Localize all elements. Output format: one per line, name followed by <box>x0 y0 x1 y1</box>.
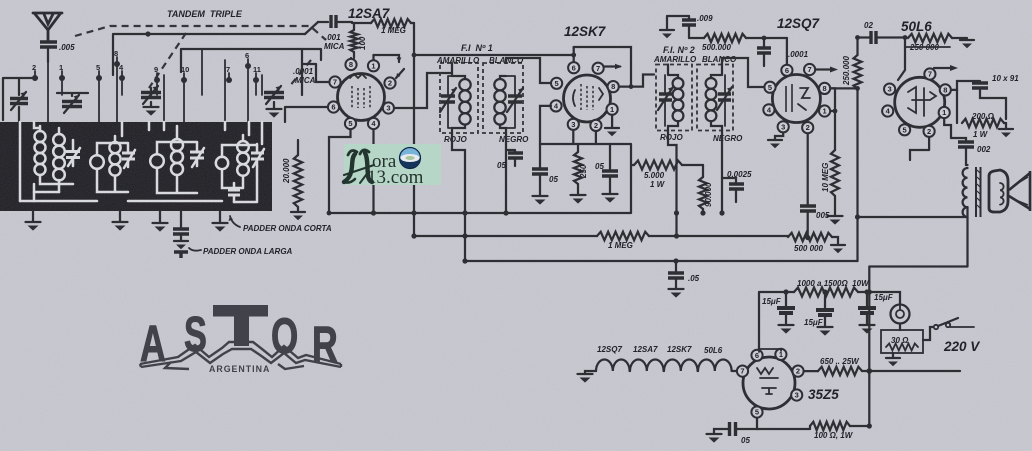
svg-text:05: 05 <box>595 162 604 171</box>
white bottom rails <box>20 166 257 202</box>
svg-text:ROJO: ROJO <box>660 133 683 142</box>
resistor 500000 volume <box>788 233 832 241</box>
white wires g2 <box>97 122 128 192</box>
ground .009 <box>660 29 674 31</box>
svg-text:500 000: 500 000 <box>794 244 823 253</box>
svg-text:30 Ω: 30 Ω <box>891 336 909 345</box>
capacitor .0001 <box>757 48 771 53</box>
wire plate riser to pins <box>759 349 781 352</box>
wire osc link <box>305 22 318 34</box>
svg-text:1 W: 1 W <box>973 130 989 139</box>
pin 3 <box>791 389 802 400</box>
bus AVC with 1 MEG <box>414 235 597 237</box>
ground box 1 <box>32 211 34 221</box>
capacitor 05 fi1 <box>506 150 515 152</box>
resistor 200 ohm <box>962 119 1004 127</box>
pin 1 <box>775 349 786 360</box>
pin 5 <box>345 118 356 129</box>
tube 50L6 <box>895 77 945 127</box>
svg-text:12SA7: 12SA7 <box>348 6 391 21</box>
capacitor .009 <box>667 16 689 29</box>
svg-text:0.0025: 0.0025 <box>727 170 752 179</box>
wire pin2 down <box>910 137 929 160</box>
wire pin7 arrow <box>604 65 620 67</box>
svg-text:5.000: 5.000 <box>644 171 665 180</box>
wire pin3 down <box>572 130 574 144</box>
svg-text:15μF: 15μF <box>804 318 824 327</box>
svg-text:1000 a 1500Ω 10W: 1000 a 1500Ω 10W <box>797 279 870 288</box>
capacitor 0.0025 <box>722 178 736 183</box>
dashed link to tuning cap 1 <box>149 33 186 88</box>
FI2 secondary trimmer <box>718 94 731 100</box>
wire FI1 sec top to 12SK7 <box>506 58 551 83</box>
svg-text:12SK7: 12SK7 <box>667 345 692 354</box>
pin 2 <box>384 77 395 88</box>
svg-text:3: 3 <box>386 104 390 113</box>
bus B minus <box>465 260 858 262</box>
svg-text:220 V: 220 V <box>943 339 980 354</box>
svg-text:5: 5 <box>755 408 759 417</box>
speaker cone <box>1009 171 1030 211</box>
wire pin5 down <box>736 418 757 429</box>
svg-text:11: 11 <box>253 65 261 74</box>
cap white 2 <box>122 153 135 159</box>
wire pin5 down <box>329 130 351 214</box>
pin 6 <box>573 47 575 62</box>
svg-text:05: 05 <box>497 161 506 170</box>
wire FI2 rojo to AVC <box>668 131 677 237</box>
pin 7 <box>329 76 340 87</box>
svg-text:90.000: 90.000 <box>704 182 713 207</box>
svg-text:NEGRO: NEGRO <box>713 134 743 143</box>
wire pin1 hook <box>374 55 400 62</box>
FI1 primary coil <box>452 63 465 79</box>
svg-text:12SQ7: 12SQ7 <box>777 16 821 31</box>
svg-text:6: 6 <box>331 103 335 112</box>
pin 4 <box>882 105 893 116</box>
watermark Hora13.com <box>344 144 441 185</box>
ground box 3 <box>159 211 161 222</box>
tube 12SQ7 <box>772 75 820 123</box>
resistor 5.000 1W <box>610 144 634 165</box>
ground volume <box>831 244 845 246</box>
svg-text:5: 5 <box>348 119 352 128</box>
white wires g1 <box>20 122 73 201</box>
coil loop g2 <box>90 155 104 169</box>
white wires g3 <box>149 122 197 193</box>
ASTOR lightning bolt <box>140 342 341 369</box>
pin 1 <box>607 104 618 115</box>
pin 2 <box>924 126 935 137</box>
wire pin8 pin1 node <box>831 88 835 150</box>
pin 5 <box>764 82 775 93</box>
svg-text:7: 7 <box>928 70 932 79</box>
svg-text:2: 2 <box>796 367 800 376</box>
FI1 secondary coil <box>494 79 505 90</box>
svg-text:F.I Nº 1: F.I Nº 1 <box>461 43 493 53</box>
trimmer cap left edge <box>3 78 37 122</box>
resistor 30 ohm box <box>899 324 901 331</box>
wire pin8 node <box>956 90 958 123</box>
trimmer cap 2 <box>57 93 88 96</box>
pin 2 <box>802 122 813 133</box>
svg-text:PADDER ONDA CORTA: PADDER ONDA CORTA <box>243 224 332 233</box>
svg-text:PADDER ONDA LARGA: PADDER ONDA LARGA <box>203 247 293 256</box>
coil L2 <box>109 142 120 153</box>
capacitor 10x91 <box>951 81 980 90</box>
svg-text:100 Ω, 1W: 100 Ω, 1W <box>814 431 854 440</box>
svg-text:.0001: .0001 <box>788 50 809 59</box>
wire FI1 negro down <box>505 133 507 213</box>
wire AVC to 12SK7 grid <box>414 54 574 56</box>
svg-text:200 Ω: 200 Ω <box>971 112 995 121</box>
svg-text:3: 3 <box>888 85 892 94</box>
svg-text:7: 7 <box>596 64 600 73</box>
svg-text:2: 2 <box>388 79 392 88</box>
wire pin6 left <box>285 107 328 122</box>
resistor 250.000 grid 50L6 <box>904 38 906 61</box>
svg-text:1 W: 1 W <box>650 180 666 189</box>
capacitor .05 bus <box>675 261 677 272</box>
resistor 1 MEG <box>352 22 414 24</box>
svg-text:AMARILLO: AMARILLO <box>653 55 697 64</box>
svg-text:1: 1 <box>610 105 614 114</box>
pin 8 <box>819 83 830 94</box>
svg-text:02: 02 <box>864 21 873 30</box>
wire pin7 left <box>302 49 329 95</box>
wire pin3 ground <box>775 133 783 140</box>
capacitor 05 screen <box>609 144 611 170</box>
wire top h2 <box>181 49 321 72</box>
wire pin7 arrow <box>816 68 834 70</box>
white wires g4 <box>222 122 262 188</box>
svg-text:5: 5 <box>768 83 772 92</box>
ASTOR logo letter T <box>213 305 268 346</box>
svg-text:.005: .005 <box>59 43 75 52</box>
svg-text:.009: .009 <box>697 14 713 23</box>
ground tuning 3 <box>267 108 282 110</box>
coil L4 <box>237 141 249 153</box>
svg-text:50L6: 50L6 <box>901 19 932 34</box>
capacitor 15uF 1 <box>785 292 787 307</box>
svg-text:50L6: 50L6 <box>704 346 723 355</box>
FI2 primary coil <box>673 78 684 89</box>
svg-text:2: 2 <box>594 121 598 130</box>
svg-text:05: 05 <box>549 175 558 184</box>
pin 8 <box>940 84 951 95</box>
watermark blackletter H <box>344 150 374 183</box>
wire pin8 to FI2 <box>631 75 654 87</box>
svg-text:2: 2 <box>806 123 810 132</box>
svg-text:6: 6 <box>572 63 576 72</box>
capacitor 05 output <box>730 422 736 436</box>
wire pin8 loop <box>574 47 631 87</box>
pin 8 <box>608 81 619 92</box>
svg-text:3: 3 <box>781 122 785 131</box>
tube 35Z5 <box>743 357 795 409</box>
capacitor 02 coupling <box>858 36 870 38</box>
pin 2 <box>590 120 601 131</box>
svg-text:8: 8 <box>823 84 827 93</box>
padder cap white <box>228 190 240 195</box>
svg-text:8: 8 <box>611 82 615 91</box>
svg-text:MICA: MICA <box>324 42 345 51</box>
dashed link to tuning cap 3 <box>289 60 311 87</box>
dashed tandem line <box>75 26 326 40</box>
pin 3 <box>383 102 394 113</box>
capacitor .005 <box>40 42 57 47</box>
pin 3 <box>898 60 905 80</box>
speaker <box>989 170 1008 212</box>
svg-text:7: 7 <box>740 367 744 376</box>
wire FI1 rojo down <box>452 133 465 261</box>
svg-text:F.I. Nº 2: F.I. Nº 2 <box>663 45 695 55</box>
svg-text:12SK7: 12SK7 <box>564 24 607 39</box>
capacitor 002 <box>951 138 966 141</box>
ground 05 output <box>714 429 722 433</box>
svg-text:1: 1 <box>371 61 375 70</box>
capacitor .001 MICA <box>318 21 352 23</box>
ground 10 MEG <box>828 215 843 217</box>
pin 3 <box>568 119 579 130</box>
svg-text:13.com: 13.com <box>367 167 424 188</box>
wire B plus to transformer <box>858 207 968 292</box>
svg-text:2: 2 <box>927 127 931 136</box>
pin 5 <box>751 406 762 417</box>
bus AF top <box>329 165 631 213</box>
svg-text:BLANCO: BLANCO <box>702 55 737 64</box>
svg-text:35Z5: 35Z5 <box>808 387 839 402</box>
ground 20.000 <box>297 207 299 211</box>
pin 2 <box>792 366 803 377</box>
wire pin1 ground <box>611 115 613 127</box>
svg-text:3: 3 <box>571 120 575 129</box>
wire FI2 negro down <box>721 131 723 214</box>
resistor 500.000 grid <box>689 37 704 39</box>
output transformer <box>966 164 968 166</box>
svg-text:5: 5 <box>555 79 559 88</box>
coil loop g3 <box>150 154 164 168</box>
svg-text:005: 005 <box>816 211 830 220</box>
svg-text:.05: .05 <box>688 274 700 283</box>
resistor 10 MEG <box>831 150 839 196</box>
pin 7 <box>804 64 815 75</box>
resistor 250 cathode <box>577 144 579 152</box>
wire rect plate riser <box>759 292 786 352</box>
svg-text:AMARILLO: AMARILLO <box>436 56 480 65</box>
svg-text:100: 100 <box>358 36 367 50</box>
svg-text:8: 8 <box>943 86 947 95</box>
tube 12SK7 <box>564 75 611 122</box>
resistor 100 1W <box>757 426 810 429</box>
filament chokes <box>596 360 736 371</box>
filament string ground <box>578 373 593 375</box>
resistor 250.000 vertical <box>856 38 858 56</box>
svg-text:12SA7: 12SA7 <box>633 345 658 354</box>
padder onda larga cap <box>180 211 182 228</box>
capacitor 15uF 3 <box>866 292 868 307</box>
svg-text:MICA: MICA <box>295 76 316 85</box>
coil L1b <box>53 134 65 146</box>
coil L1a <box>35 131 46 142</box>
svg-text:250: 250 <box>579 164 588 179</box>
coil L3 <box>171 139 183 151</box>
cap white 1 <box>66 152 80 158</box>
ground 250000 <box>960 39 974 41</box>
watermark globe <box>400 148 421 169</box>
svg-text:650 .. 25W: 650 .. 25W <box>820 357 860 366</box>
wire 1meg to AVC bus <box>413 23 415 236</box>
pin 1 <box>939 107 950 118</box>
resistor 20.000 <box>297 140 299 155</box>
svg-text:12SQ7: 12SQ7 <box>597 345 622 354</box>
wire pin4 down <box>372 130 374 214</box>
FI2 secondary coil <box>706 78 717 89</box>
cap white 4 <box>251 153 264 159</box>
wire power node down <box>868 292 870 371</box>
svg-text:5: 5 <box>903 125 907 134</box>
resistor 1000-1500 10W <box>786 291 794 293</box>
svg-text:1 MEG: 1 MEG <box>608 241 633 250</box>
svg-text:500.000: 500.000 <box>702 43 731 52</box>
svg-text:20.000: 20.000 <box>282 158 291 184</box>
FI1 secondary trimmer <box>508 96 522 102</box>
switch 220V <box>923 327 933 340</box>
resistor 90.000 <box>702 165 704 177</box>
svg-text:3: 3 <box>795 391 799 400</box>
tuning cap section 3 <box>264 93 284 98</box>
svg-text:.001: .001 <box>325 33 341 42</box>
cap white 3 <box>190 152 204 158</box>
pin 6 <box>751 350 762 361</box>
FI1 primary trimmer <box>441 96 455 102</box>
svg-text:10: 10 <box>181 65 189 74</box>
wire pin1 down <box>944 119 951 139</box>
pin 3 <box>778 121 789 132</box>
pin 7 <box>737 366 748 377</box>
svg-text:10 x 91: 10 x 91 <box>992 74 1019 83</box>
wire plate to coupling node <box>831 87 858 89</box>
pin 5 <box>899 124 910 135</box>
ground 200 ohm <box>1005 123 1007 128</box>
ground box 2 <box>119 211 121 221</box>
svg-text:10 MEG: 10 MEG <box>821 163 830 192</box>
svg-text:7: 7 <box>808 65 812 74</box>
svg-text:ARGENTINA: ARGENTINA <box>209 364 270 374</box>
svg-text:TANDEM TRIPLE: TANDEM TRIPLE <box>167 9 243 19</box>
wire pin2 down <box>807 134 809 205</box>
svg-text:ROJO: ROJO <box>444 135 467 144</box>
capacitor 005 <box>800 206 816 211</box>
svg-text:1: 1 <box>942 108 946 117</box>
pin 6 <box>328 101 339 112</box>
wire pin4 down <box>540 106 551 144</box>
svg-text:05: 05 <box>741 436 750 445</box>
svg-text:6: 6 <box>785 66 789 75</box>
wire pin2 arrow <box>396 69 404 78</box>
svg-text:002: 002 <box>977 145 991 154</box>
svg-text:15μF: 15μF <box>762 297 782 306</box>
IF transformer FI2 box <box>656 65 692 131</box>
pin 8 <box>350 58 352 64</box>
pin 5 <box>551 78 562 89</box>
capacitor 15uF 2 <box>824 292 826 309</box>
cathode rail <box>540 143 610 145</box>
ground 30 ohm <box>892 353 894 357</box>
pin 1 <box>819 105 830 116</box>
pin 7 <box>924 68 935 79</box>
wire pin7 arrow <box>934 67 954 69</box>
FI2 primary trimmer <box>659 94 672 100</box>
pin 7 <box>593 63 604 74</box>
pilot lamp <box>869 292 900 304</box>
capacitor 05 cathode <box>539 144 541 168</box>
svg-text:250.000: 250.000 <box>842 56 851 86</box>
resistor 650 25W <box>804 370 818 372</box>
resistor 100 ohm grid <box>353 23 355 58</box>
pin 4 <box>550 100 561 111</box>
tube 12SA7 <box>338 74 385 121</box>
svg-text:15μF: 15μF <box>874 293 894 302</box>
svg-text:NEGRO: NEGRO <box>499 135 529 144</box>
tuning cap section 1 <box>150 88 152 95</box>
pin 4 <box>368 118 379 129</box>
wire pin2 down <box>595 131 597 144</box>
IF transformer FI1 box <box>440 63 478 133</box>
band switch coil box <box>0 122 272 211</box>
pin 6 <box>786 38 788 64</box>
wire pin3 to FI1 <box>394 73 452 108</box>
wire top h1 <box>113 34 305 75</box>
svg-text:1: 1 <box>823 107 827 116</box>
pin 4 <box>763 104 774 115</box>
wire FI2 sec top to 12SQ7 <box>722 58 764 87</box>
svg-text:7: 7 <box>333 78 337 87</box>
antenna <box>33 13 62 41</box>
svg-text:8: 8 <box>349 60 353 69</box>
ground box 4 <box>219 211 221 222</box>
wire contact drops <box>48 49 262 122</box>
ground tuning 1 <box>144 106 159 108</box>
coil loop g4 <box>216 157 228 169</box>
svg-text:.0001: .0001 <box>293 67 314 76</box>
svg-text:1 MEG: 1 MEG <box>381 26 406 35</box>
pin 1 <box>372 55 374 65</box>
